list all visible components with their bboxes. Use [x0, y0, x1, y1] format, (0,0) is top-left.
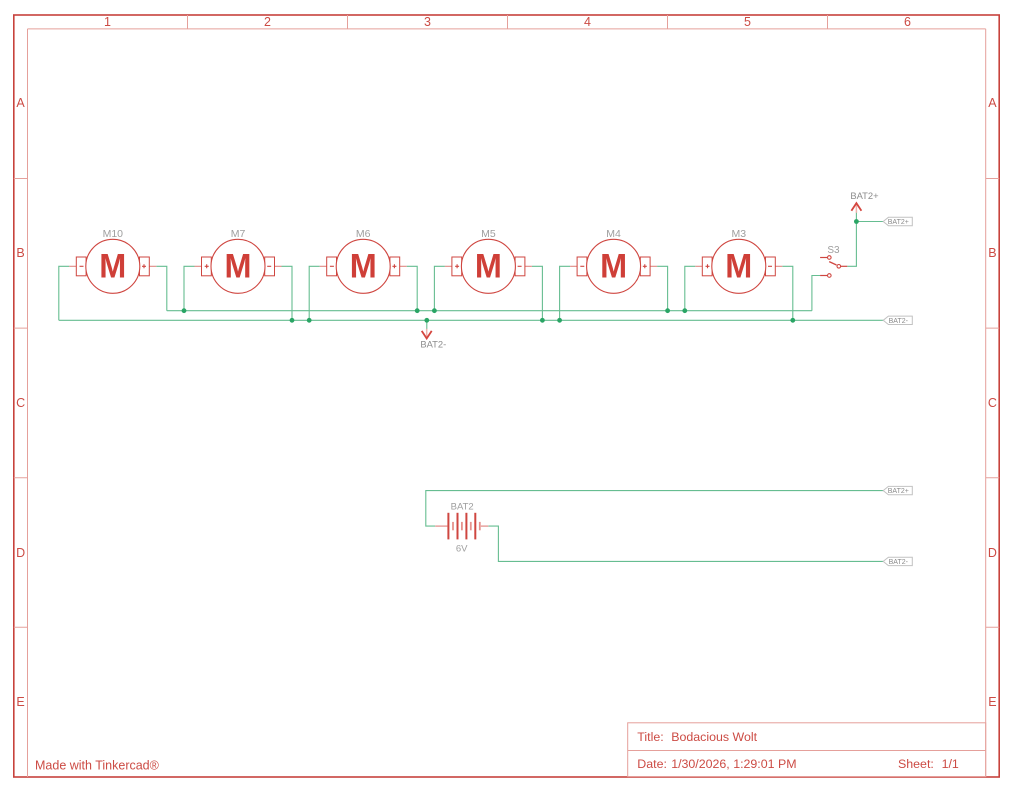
svg-text:BAT2-: BAT2- [420, 339, 446, 350]
wire M4 right to rail1 [657, 266, 668, 310]
svg-text:2: 2 [264, 15, 271, 29]
battery BAT2 [435, 502, 488, 555]
motor M6 [320, 228, 407, 293]
svg-text:BAT2-: BAT2- [889, 559, 909, 566]
wire M3 right to rail2 [782, 266, 793, 320]
svg-text:M: M [725, 247, 752, 285]
motor M4 [570, 228, 657, 293]
svg-text:1/1: 1/1 [942, 757, 959, 771]
wire M5 left to rail1 [434, 266, 445, 310]
motor M5 [445, 228, 532, 293]
svg-text:BAT2+: BAT2+ [888, 219, 909, 226]
svg-text:Bodacious Wolt: Bodacious Wolt [671, 730, 757, 744]
svg-text:E: E [16, 695, 24, 709]
svg-text:Date:: Date: [637, 757, 667, 771]
svg-text:BAT2+: BAT2+ [888, 488, 909, 495]
wire M6 right to rail1 [407, 266, 418, 310]
svg-text:A: A [988, 96, 997, 110]
switch S3 [820, 245, 847, 277]
svg-text:B: B [16, 246, 24, 260]
junction dots rail1 [182, 308, 688, 313]
svg-text:Title:: Title: [637, 730, 663, 744]
wire switch common to BAT2+ power arrow [847, 213, 856, 267]
svg-text:3: 3 [424, 15, 431, 29]
svg-text:5: 5 [744, 15, 751, 29]
wire rail2 minus bus to BAT2- flag [59, 319, 883, 321]
svg-text:M: M [350, 247, 377, 285]
wire M10 right to rail1 [156, 266, 167, 310]
wire M3 left to rail1 [685, 266, 696, 310]
wire stub BAT2- power arrow [426, 320, 428, 329]
svg-text:4: 4 [584, 15, 591, 29]
title block [628, 723, 986, 777]
net flag BAT2+ row B [883, 217, 912, 226]
wire M10 left to rail2 [59, 266, 70, 320]
svg-text:BAT2-: BAT2- [889, 318, 909, 325]
junction dots rail2 [290, 318, 796, 323]
wire M7 left to rail1 [184, 266, 195, 310]
wire branch to BAT2+ net flag [856, 221, 883, 223]
wire M5 right to rail2 [532, 266, 543, 320]
svg-text:D: D [988, 546, 997, 560]
net flag BAT2- row D [883, 557, 912, 566]
svg-text:C: C [16, 396, 25, 410]
wire rail1 plus bus [167, 310, 812, 312]
svg-text:M6: M6 [356, 228, 371, 240]
svg-text:6: 6 [904, 15, 911, 29]
wire battery right down to BAT2- net flag [488, 526, 883, 561]
power flag BAT2+ up arrow [850, 190, 879, 213]
svg-text:1: 1 [104, 15, 111, 29]
svg-text:M: M [225, 247, 252, 285]
svg-text:Sheet:: Sheet: [898, 757, 934, 771]
wire M4 left to rail2 [560, 266, 571, 320]
svg-text:M7: M7 [231, 228, 246, 240]
svg-text:M5: M5 [481, 228, 496, 240]
wire battery left up and to BAT2+ net flag [426, 491, 883, 526]
wire M7 right to rail2 [282, 266, 293, 320]
svg-text:M10: M10 [103, 228, 124, 240]
motor M7 [195, 228, 282, 293]
svg-text:A: A [16, 96, 25, 110]
svg-text:BAT2: BAT2 [451, 502, 474, 513]
net flag BAT2+ row D [883, 486, 912, 495]
svg-text:M3: M3 [732, 228, 747, 240]
svg-text:M: M [600, 247, 627, 285]
svg-text:M: M [475, 247, 502, 285]
svg-text:E: E [988, 695, 996, 709]
svg-text:Made with Tinkercad®: Made with Tinkercad® [35, 759, 160, 773]
svg-text:1/30/2026, 1:29:01 PM: 1/30/2026, 1:29:01 PM [671, 757, 796, 771]
svg-text:M: M [99, 247, 126, 285]
svg-text:6V: 6V [456, 544, 468, 555]
svg-text:BAT2+: BAT2+ [850, 190, 879, 201]
wire switch lower contact to rail1 [812, 276, 820, 311]
svg-text:M4: M4 [606, 228, 621, 240]
svg-text:C: C [988, 396, 997, 410]
motor M10 [69, 228, 156, 293]
junction dot BAT2+ branch [854, 219, 859, 224]
net flag BAT2- row B [883, 316, 912, 325]
power flag BAT2- down arrow [420, 329, 446, 350]
svg-text:D: D [16, 546, 25, 560]
wire M6 left to rail2 [309, 266, 320, 320]
svg-text:S3: S3 [827, 245, 840, 256]
motor M3 [695, 228, 782, 293]
svg-text:B: B [988, 246, 996, 260]
